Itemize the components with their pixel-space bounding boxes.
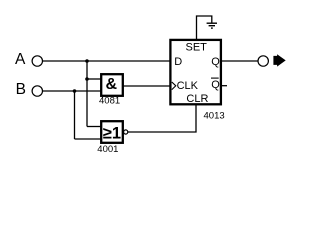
svg-text:A: A: [15, 51, 26, 68]
wire B branch to OR bottom input: [75, 138, 102, 140]
wire SET to ground: [197, 16, 212, 40]
wire A branch to AND top input: [87, 78, 101, 80]
svg-text:Q: Q: [211, 56, 220, 68]
wire B to AND bottom input: [43, 90, 101, 92]
svg-text:4081: 4081: [99, 96, 120, 107]
NOR output bubble: [124, 130, 128, 134]
output arrow: [273, 54, 285, 66]
wire Q to output terminal: [221, 60, 258, 62]
AND gate 4081: [101, 74, 123, 96]
input terminal B: [32, 86, 42, 96]
wire NOR output to CLR: [128, 104, 196, 132]
svg-text:D: D: [174, 56, 182, 68]
Qbar stub: [221, 85, 227, 87]
svg-text:CLK: CLK: [177, 80, 199, 92]
clock wedge: [172, 82, 176, 90]
wire A to D input: [43, 60, 170, 62]
input terminal A: [32, 56, 42, 66]
output terminal: [258, 56, 268, 66]
svg-text:4001: 4001: [97, 144, 118, 155]
svg-text:4013: 4013: [204, 111, 225, 122]
node on wire A: [85, 59, 89, 63]
svg-text:SET: SET: [186, 42, 208, 54]
ground: [207, 22, 217, 24]
wire B branch vertical: [74, 91, 76, 139]
Qbar overline: [211, 77, 219, 79]
wire A branch vertical: [86, 61, 88, 127]
node on A branch: [85, 77, 89, 81]
svg-text:&: &: [106, 76, 118, 93]
wire A branch to OR top input: [87, 126, 101, 128]
NOR gate 4001: [101, 121, 123, 143]
svg-text:≥1: ≥1: [103, 124, 121, 142]
node on wire B: [73, 89, 77, 93]
svg-text:B: B: [16, 81, 26, 98]
svg-text:Q: Q: [211, 79, 220, 91]
svg-text:CLR: CLR: [186, 93, 208, 105]
flip-flop U1 4013: [170, 40, 221, 104]
wire AND output to CLK: [123, 85, 170, 87]
